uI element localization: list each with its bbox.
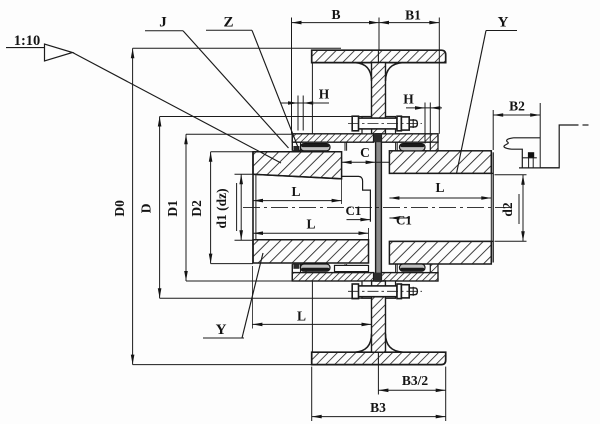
bolt head top <box>352 116 358 131</box>
lower L ext right <box>368 228 370 248</box>
washer bottom <box>397 284 401 299</box>
bolt shank top <box>357 118 398 129</box>
Z leader line <box>252 30 300 151</box>
gear tooth crown left top (dark cap) <box>301 144 329 147</box>
B2 arrow left <box>493 113 503 117</box>
third L arrow right <box>362 323 372 327</box>
svg-text:D0: D0 <box>112 200 127 217</box>
svg-text:D: D <box>139 203 154 213</box>
right sleeve inner wall bottom 2 <box>396 264 398 273</box>
lower L arrow left <box>253 231 263 235</box>
svg-text:L: L <box>435 180 444 195</box>
upper L arrow right <box>332 199 342 203</box>
left hub bore taper line 1:10 <box>253 174 342 179</box>
B2 ext right <box>539 103 541 168</box>
right sleeve outer wall bottom strip <box>381 273 438 281</box>
arrow B right <box>369 21 379 25</box>
svg-text:C: C <box>360 145 370 160</box>
right hub bore bottom line <box>389 240 493 242</box>
keyway profile top line <box>514 137 541 139</box>
extension line D0 top <box>133 47 341 49</box>
third L arrow left <box>252 323 262 327</box>
key seat line <box>522 157 537 159</box>
lower L arrow right <box>359 231 369 235</box>
C1 right dimension line <box>389 217 410 219</box>
svg-text:L: L <box>297 309 306 324</box>
brake drum web upper left fillet <box>355 63 372 81</box>
H right ext b <box>429 103 431 143</box>
left sleeve end face bottom <box>291 264 293 281</box>
svg-text:B2: B2 <box>509 99 525 114</box>
svg-text:1:10: 1:10 <box>14 33 41 49</box>
sleeve inner wall left bottom <box>344 264 346 273</box>
right hub right end face <box>492 152 494 262</box>
right L arrow right <box>481 196 491 200</box>
arrow D2 top <box>209 152 213 162</box>
B3 arrow right <box>436 415 446 419</box>
J underline <box>145 30 183 32</box>
extension line D1 bottom <box>186 280 292 282</box>
bolt thread stub bottom <box>409 288 417 295</box>
Y top underline <box>486 30 517 32</box>
right sleeve end cap lip bottom <box>430 264 438 273</box>
extension line D bottom <box>160 297 362 299</box>
arrow D1 bottom <box>184 271 188 281</box>
extension line D1 top <box>186 133 292 135</box>
svg-text:C1: C1 <box>346 203 362 218</box>
bolt shank bottom <box>357 286 398 297</box>
seal shadow left top <box>293 146 299 151</box>
B2 dimension line <box>493 114 540 116</box>
right hub cross-section upper half <box>389 151 491 174</box>
drum inner edge projection line top <box>311 63 313 134</box>
brake drum web lower <box>372 281 386 352</box>
extension line B left <box>291 18 293 134</box>
arrow D2 bottom <box>209 254 213 264</box>
label d2 underline <box>518 194 520 224</box>
keyway profile step <box>512 149 523 168</box>
left sleeve end face top <box>291 134 293 151</box>
taper leader line <box>73 53 282 164</box>
svg-text:L: L <box>306 217 315 232</box>
left bolt flange bottom <box>362 281 372 298</box>
left hub left face <box>252 152 254 263</box>
spacer ring below left hub <box>335 265 369 271</box>
svg-text:Y: Y <box>216 322 227 338</box>
bolt centerline bottom <box>348 290 422 292</box>
B2 arrow right <box>530 113 540 117</box>
upper L ext right <box>341 179 343 204</box>
key side line b <box>532 158 534 168</box>
svg-text:B1: B1 <box>405 8 421 23</box>
svg-text:C1: C1 <box>396 213 412 228</box>
washer top <box>397 116 401 131</box>
brake drum web upper <box>372 63 386 134</box>
arrow d1 top <box>239 174 243 184</box>
left sleeve end lip line top <box>305 142 307 151</box>
third L dimension line (hub face to drum web) <box>252 323 371 325</box>
B3 dimension line <box>312 416 446 418</box>
upper L arrow left <box>253 199 263 203</box>
gear tooth crown right bottom (dark cap) <box>400 268 424 271</box>
gear tooth crown right top (body) <box>400 144 426 151</box>
gear tooth crown left bottom (dark cap) <box>301 268 329 271</box>
drum web center split line in top rim <box>377 50 379 62</box>
svg-text:B: B <box>331 7 340 22</box>
svg-text:d2: d2 <box>500 202 515 217</box>
key side line a <box>528 158 530 168</box>
arrow D1 top <box>184 134 188 144</box>
extension line D2 bottom <box>211 263 253 265</box>
brake drum rim top <box>312 50 446 62</box>
extension line D2 top <box>211 151 253 153</box>
gear tooth crown left top (body) <box>301 144 331 151</box>
B3/2 ext left <box>377 365 379 395</box>
right sleeve inner wall top 2 <box>396 142 398 151</box>
H left ext b <box>302 96 304 131</box>
drum inner edge projection line bottom <box>311 281 313 352</box>
lower L dimension line <box>253 232 369 234</box>
extension line d1 top <box>235 173 254 175</box>
svg-text:D2: D2 <box>189 200 204 217</box>
d2 ext bottom <box>495 240 527 242</box>
left sleeve end lip line bottom <box>305 264 307 273</box>
svg-text:H: H <box>403 92 414 107</box>
dimension line B and B1 <box>292 22 440 24</box>
svg-text:Y: Y <box>498 15 509 31</box>
keyway profile bottom line <box>519 167 559 169</box>
right hub inner face chamfer line <box>490 151 492 264</box>
gear tooth crown left bottom (body) <box>301 264 331 271</box>
C1 left arrow <box>360 218 370 222</box>
dimension line D <box>159 117 161 299</box>
main axis centerline <box>243 206 512 208</box>
seal shadow left bottom <box>293 264 299 269</box>
d2 dimension line <box>522 175 524 242</box>
arrow D0 bottom <box>131 355 135 365</box>
keyway freehand break squiggle <box>504 138 514 149</box>
svg-text:J: J <box>159 15 167 31</box>
key cross-section (black) <box>528 152 534 158</box>
dimension line D1 <box>185 134 187 281</box>
arrow D bottom <box>158 288 162 298</box>
B3 ext left <box>311 367 313 421</box>
B3 ext right <box>445 395 447 422</box>
svg-text:B3/2: B3/2 <box>402 373 429 388</box>
d2 arrow top <box>521 175 525 185</box>
left hub bore chamfer line <box>255 175 257 240</box>
left bolt flange top <box>362 117 372 134</box>
extension line D0 bottom <box>133 364 312 366</box>
arrow B1 right <box>429 21 439 25</box>
extension line B1 right <box>438 18 440 134</box>
left sleeve end inner edge bottom <box>300 264 302 273</box>
upper L dimension line <box>253 200 342 202</box>
H right dim line <box>406 107 442 109</box>
H left ext a <box>297 96 299 131</box>
svg-text:D1: D1 <box>165 200 180 217</box>
C1 right arrow <box>389 216 399 220</box>
H right ext a <box>424 103 426 144</box>
extension line B middle <box>378 18 380 51</box>
B3/2 arrow right <box>436 389 446 393</box>
bolt centerline top <box>348 123 422 125</box>
C arrow left <box>342 161 352 165</box>
brake drum web upper right fillet <box>386 63 404 81</box>
right sleeve outer wall top strip <box>381 134 438 142</box>
left sleeve outer wall bottom strip <box>292 273 373 281</box>
Z underline <box>206 29 252 31</box>
svg-text:Z: Z <box>223 15 233 31</box>
C1 left dimension line <box>347 219 371 221</box>
brake drum web lower right fillet <box>386 334 404 352</box>
arrow d1 bottom <box>239 230 243 240</box>
extension line D top <box>160 116 362 118</box>
gear tooth crown right bottom (body) <box>400 264 426 271</box>
split pin hole bottom <box>412 287 414 296</box>
right sleeve inner wall top <box>395 142 397 151</box>
right sleeve inner wall bottom <box>395 264 397 273</box>
B2 ext left (hub face extension) <box>492 110 494 150</box>
arrow D0 top <box>131 48 135 58</box>
B3/2 dimension line <box>378 389 445 391</box>
right hub cross-section lower half <box>389 241 491 264</box>
J leader line <box>183 31 289 148</box>
hub face extension for third L <box>251 266 253 329</box>
sleeve inner wall left 2 <box>346 142 348 151</box>
Y bottom underline <box>203 337 244 339</box>
H right arrow a <box>415 106 425 110</box>
drum web center split line in bottom rim <box>377 352 379 364</box>
B3 arrow left <box>312 415 322 419</box>
H left arrow b <box>303 101 313 105</box>
Y bottom leader line <box>242 253 263 338</box>
right sleeve end cap lip top <box>430 142 438 151</box>
shaft break line outline <box>540 125 578 168</box>
d2 ext top <box>495 174 527 176</box>
brake drum web lower left fillet <box>355 334 372 352</box>
arrow B1 left <box>379 21 389 25</box>
svg-text:L: L <box>291 184 300 199</box>
extension line d1 bottom <box>235 239 254 241</box>
C arrow right <box>366 161 376 165</box>
H right arrow b <box>430 106 440 110</box>
Y top leader line <box>457 31 487 174</box>
Z-type shaft end outline (stub with shoulder) <box>342 176 371 221</box>
split pin hole top <box>412 119 414 128</box>
right L arrow left <box>389 196 399 200</box>
sleeve inner wall left <box>344 142 346 151</box>
membrane dark section at sleeve strip level top <box>374 134 381 142</box>
bolt head bottom <box>352 284 358 299</box>
svg-text:B3: B3 <box>370 400 386 415</box>
svg-text:H: H <box>319 87 330 102</box>
H left dim line <box>281 102 329 104</box>
right bolt flange bottom <box>386 281 396 298</box>
H left arrow a <box>288 101 298 105</box>
svg-text:d1 (dz): d1 (dz) <box>214 188 229 228</box>
B3/2 ext right <box>445 367 447 395</box>
membrane disc (drum web plate) between flanges <box>376 134 382 281</box>
dimension line D2 <box>210 152 212 264</box>
membrane dark section at sleeve strip level bottom <box>374 273 381 281</box>
left hub lower half (cylindrical bore, Y-type) cross-section <box>253 240 369 263</box>
left sleeve end top edge bottom <box>292 263 306 265</box>
brake drum rim bottom <box>312 352 446 364</box>
d2 arrow bottom <box>521 231 525 241</box>
nut top <box>401 117 409 130</box>
C dimension line <box>342 161 389 163</box>
shaft break line end dash <box>583 124 589 126</box>
right bolt flange top <box>386 117 396 134</box>
bolt thread stub top <box>409 120 417 127</box>
B3/2 arrow left <box>378 389 388 393</box>
left hub upper half (taper bore, Z-type) cross-section <box>253 152 342 179</box>
sleeve inner wall left bottom 2 <box>346 264 348 273</box>
gear tooth crown right top (dark cap) <box>400 144 424 147</box>
dimension line d1(dz) <box>240 174 242 240</box>
label d1 underline <box>236 183 238 231</box>
dimension line D0 <box>132 48 134 364</box>
nut bottom <box>401 285 409 298</box>
taper label underline <box>6 47 45 49</box>
right hub bore top line <box>389 172 493 174</box>
left sleeve end inner edge top <box>300 142 302 151</box>
taper symbol triangle <box>45 44 73 61</box>
arrow D top <box>158 117 162 127</box>
arrow B left <box>292 21 302 25</box>
left sleeve end bottom edge top <box>292 150 306 152</box>
left sleeve outer wall top strip <box>292 134 373 142</box>
right L dimension line <box>389 197 491 199</box>
